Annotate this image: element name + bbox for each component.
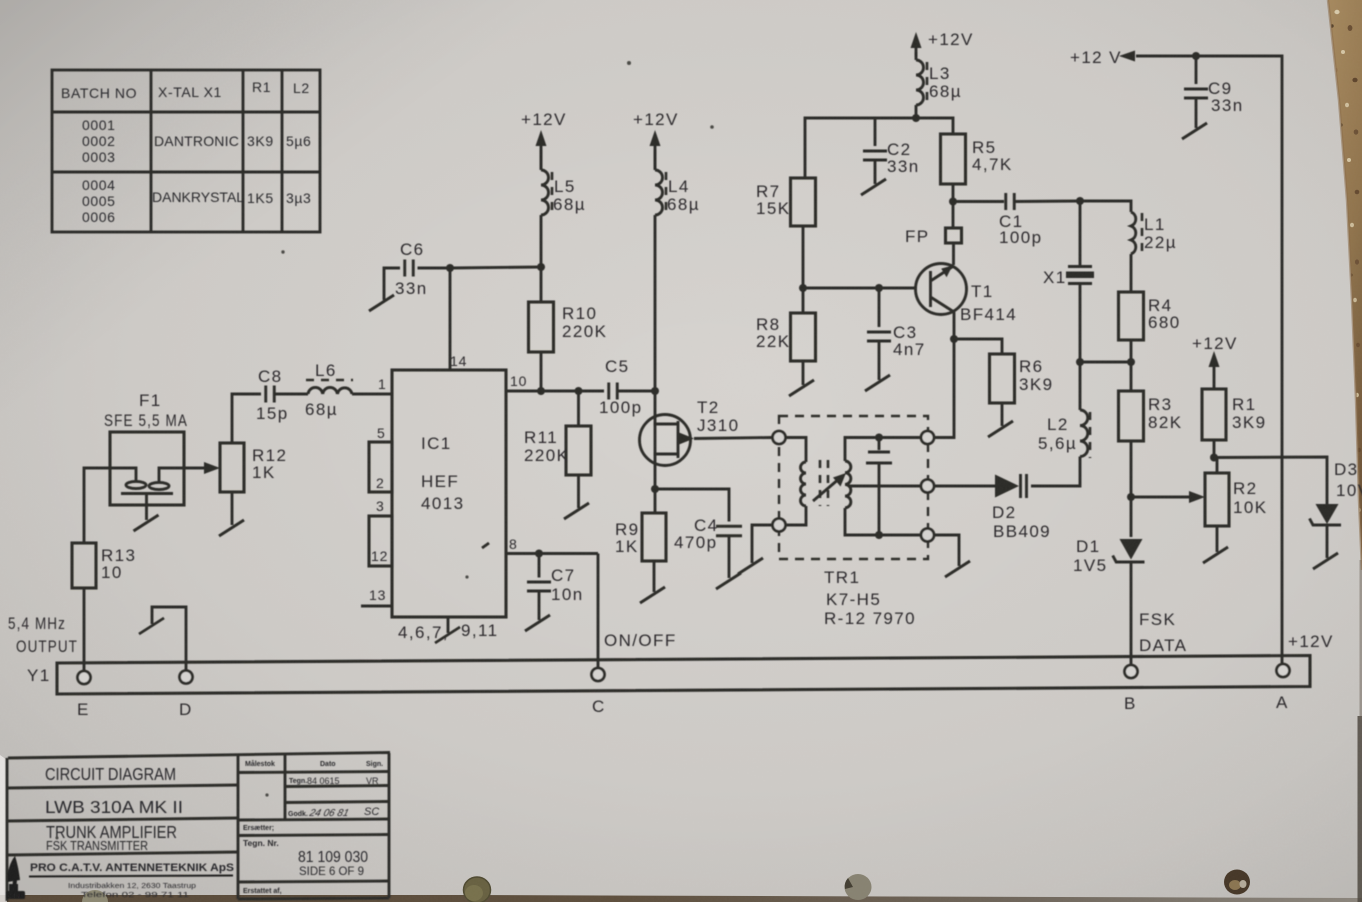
resistor R6 [990, 354, 1054, 403]
punch hole right [1224, 870, 1250, 895]
wire ON/OFF to terminal C [598, 554, 677, 669]
capacitor C4 [674, 516, 742, 552]
ground C3 [865, 341, 890, 391]
TR1 terminal top-right [921, 431, 934, 444]
+12 V feed top right [1070, 48, 1282, 664]
ground C2 [861, 160, 886, 195]
terminal E [77, 671, 91, 719]
capacitor C6 [384, 240, 450, 300]
TR1 tuning arrow [813, 473, 846, 501]
wire FP to T1 collector [952, 243, 955, 265]
wire T2 gate to TR1 [694, 438, 773, 439]
wire T2 source node [651, 457, 729, 522]
wire R13 to terminal E [83, 588, 86, 671]
wire R13 top to F1 input [84, 468, 112, 543]
wire R5 to collector node [949, 184, 957, 228]
batch table header row [61, 79, 310, 101]
paper edge shadow right [1328, 0, 1362, 570]
capacitor C5 [599, 357, 655, 417]
+12V supply above L3 [911, 30, 974, 57]
TR1 core [820, 460, 828, 506]
resistor R1 [1202, 380, 1266, 440]
inductor L6 [305, 361, 353, 419]
bottom table strip [0, 895, 1362, 902]
capacitor C9 [1184, 56, 1244, 115]
terminal C [592, 668, 606, 716]
TR1 internal capacitor [866, 438, 892, 536]
ground F1 [134, 515, 159, 531]
wire R3 to D1 [1127, 441, 1135, 537]
terrazzo floor top-right [1328, 0, 1362, 570]
wire R1/R2 node to D3 [1210, 440, 1327, 504]
ground TR1 bottom-left [738, 525, 773, 574]
terminal D with isolated stub [139, 607, 193, 719]
batch table row 2 [82, 177, 311, 225]
batch table frame [52, 70, 320, 232]
ground C6 [369, 295, 394, 311]
wire pin 10 node [506, 390, 604, 393]
resistor R12 [220, 443, 287, 492]
capacitor C1 [953, 193, 1080, 247]
resistor R4 [1119, 254, 1181, 340]
wire R12 top to C8 [232, 394, 261, 443]
label FSK DATA [1139, 610, 1187, 655]
resistor R11 [524, 387, 591, 475]
wire L2 to D2 node [1031, 457, 1080, 487]
wire T1 emitter node [934, 312, 1002, 438]
transformer TR1 dashed box [779, 416, 928, 559]
wire L6 to IC1 pin 1 [352, 393, 392, 396]
ground R11 [564, 475, 589, 519]
zener D3 10V [1310, 460, 1362, 525]
ground R2 [1203, 526, 1228, 563]
wire IC pin 8 to C7 and ON/OFF [506, 550, 598, 558]
TR1 terminal mid-right [921, 480, 934, 493]
transistor T2 J310 [640, 398, 740, 466]
label 5,4 MHz OUTPUT [8, 614, 78, 656]
capacitor C8 [256, 367, 289, 423]
ground C4 [716, 536, 741, 589]
resistor R2 [1205, 473, 1267, 526]
ground TR1 bottom-right [934, 535, 970, 577]
resistor R13 [72, 543, 136, 588]
title block frame right [238, 753, 389, 899]
TR1 terminal bottom-left [773, 519, 786, 532]
ground C9 [1182, 98, 1207, 139]
wire L5 to R10 [537, 215, 545, 302]
capacitor C2 [863, 118, 920, 176]
terminal B [1124, 665, 1138, 713]
ground C7 [525, 591, 550, 631]
wire +12V rail to R7/R5 [805, 105, 953, 178]
batch table row 1 [82, 117, 311, 165]
ground R6 [988, 403, 1013, 437]
inductor L5 [541, 150, 586, 216]
connector Y1 bus bar [27, 656, 1310, 695]
resistor R8 [756, 288, 816, 361]
paper specks [56, 61, 714, 840]
resistor R5 [941, 134, 1013, 184]
resistor R7 [756, 178, 816, 226]
wire C6 node to L5 [450, 267, 541, 268]
wiper arrow into R12 [184, 462, 220, 474]
ground R8 [789, 361, 814, 396]
punch hole mid [845, 874, 872, 900]
TR1 secondary winding [845, 434, 921, 540]
TR1 labels [824, 568, 916, 628]
+12V supply above R1 [1192, 334, 1238, 380]
crystal X1 [1043, 201, 1094, 362]
crystal filter F1 [104, 391, 188, 520]
wire C6 node to IC1 pin 14 [446, 264, 454, 370]
varicap D2 BB409 [934, 474, 1051, 541]
zener D1 1V5 [1073, 537, 1145, 575]
resistor R10 [529, 302, 608, 352]
capacitor C7 [527, 554, 584, 605]
inductor L4 [655, 150, 700, 216]
capacitor C3 [867, 288, 926, 359]
punch hole left-mid [464, 877, 491, 902]
company logo sail [7, 856, 20, 890]
terminal A [1276, 664, 1290, 712]
title block frame left [7, 753, 390, 902]
resistor R3 [1119, 391, 1183, 441]
wire X1 node to R4/R3 [1076, 340, 1135, 391]
ground R9 [640, 561, 665, 603]
inductor L2 [1038, 362, 1090, 458]
punch hole bottom-left [82, 890, 108, 902]
transistor T1 BF414 [916, 264, 1018, 325]
ground R12 [219, 492, 244, 536]
wire C8 to L6 [275, 393, 309, 396]
inductor L3 [916, 52, 962, 106]
inductor L1 [1131, 212, 1177, 255]
IC1 HEF4013 [361, 353, 527, 643]
TR1 terminal top-left [773, 431, 786, 444]
ground D3 [1313, 525, 1338, 569]
wire R7 to base node [799, 226, 916, 292]
wire L4 to T2 drain [651, 215, 659, 418]
wire C1 node to L1 [1076, 197, 1131, 212]
+12V supply above L5 [521, 110, 567, 169]
+12V supply above L4 [633, 110, 679, 169]
test point FP [905, 227, 962, 246]
wiper arrow into R2 [1131, 491, 1205, 503]
TR1 terminal bottom-right [921, 529, 934, 542]
resistor R9 [615, 513, 666, 561]
wire D1 to terminal B [1130, 562, 1133, 665]
wire R10 to pin 10 node [537, 352, 545, 395]
TR1 primary winding [786, 438, 807, 526]
